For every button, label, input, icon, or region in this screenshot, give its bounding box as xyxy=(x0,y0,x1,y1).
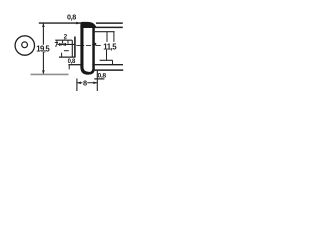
svg-text:19,5: 19,5 xyxy=(36,44,50,53)
svg-text:7: 7 xyxy=(54,42,58,49)
svg-text:8: 8 xyxy=(83,79,87,88)
svg-text:0,8: 0,8 xyxy=(67,13,76,22)
svg-text:11,5: 11,5 xyxy=(103,43,117,52)
